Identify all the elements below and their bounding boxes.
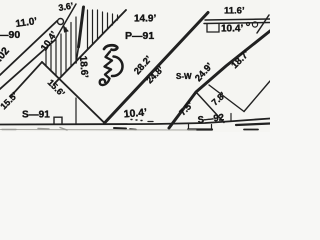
lot line LM (0, 40, 55, 89)
svg-text:S—91: S—91 (22, 110, 50, 121)
parcel sketch map (0, 0, 270, 132)
lambda left arm (11, 62, 42, 96)
small dash on line (148, 121, 153, 123)
top-right horizontal double line (205, 19, 270, 20)
svg-text:10.4’: 10.4’ (123, 106, 147, 120)
steep dimension line SE (55, 4, 76, 40)
svg-text:14.9’: 14.9’ (134, 14, 156, 25)
street double line LDD2 (169, 31, 270, 128)
bottom hook loop (100, 79, 110, 86)
svg-text:P—91: P—91 (125, 30, 154, 42)
diagonal LD (hatch right edge) (54, 10, 126, 84)
zigzag body (105, 52, 113, 79)
lot line L1 (S-90) (0, 21, 57, 75)
small circle marks (247, 23, 250, 26)
notch (207, 24, 219, 32)
triangle right edge S-92 (196, 92, 224, 123)
right V left arm (209, 85, 244, 112)
svg-text:10.4’: 10.4’ (221, 24, 243, 35)
survey point circle (58, 19, 64, 25)
top blob (104, 45, 117, 50)
svg-text:—90: —90 (0, 29, 20, 41)
faint dashes bottom-left (0, 129, 196, 132)
tick near right V (230, 114, 232, 122)
diamond edge D3 (42, 62, 105, 123)
end crossing diagonal (257, 15, 269, 33)
hatch lines (46, 10, 118, 76)
below-line bar center (188, 128, 212, 130)
right V right arm (244, 81, 270, 112)
dash under 10.4 bottom (114, 127, 126, 130)
bottom street line (0, 119, 270, 125)
bottom tick (75, 98, 77, 124)
bottom bump (54, 117, 62, 124)
wheel arc (112, 57, 123, 77)
svg-text:18.6’: 18.6’ (77, 55, 90, 78)
svg-text:11.6’: 11.6’ (224, 6, 245, 17)
bold slant wall (79, 7, 84, 47)
dots under 10.4 (131, 120, 142, 121)
arrowhead (64, 26, 69, 32)
svg-text:S-W: S-W (176, 72, 192, 81)
street double line LDD (105, 13, 209, 124)
below-line dashes right (236, 124, 270, 126)
scribble symbol (100, 45, 123, 85)
